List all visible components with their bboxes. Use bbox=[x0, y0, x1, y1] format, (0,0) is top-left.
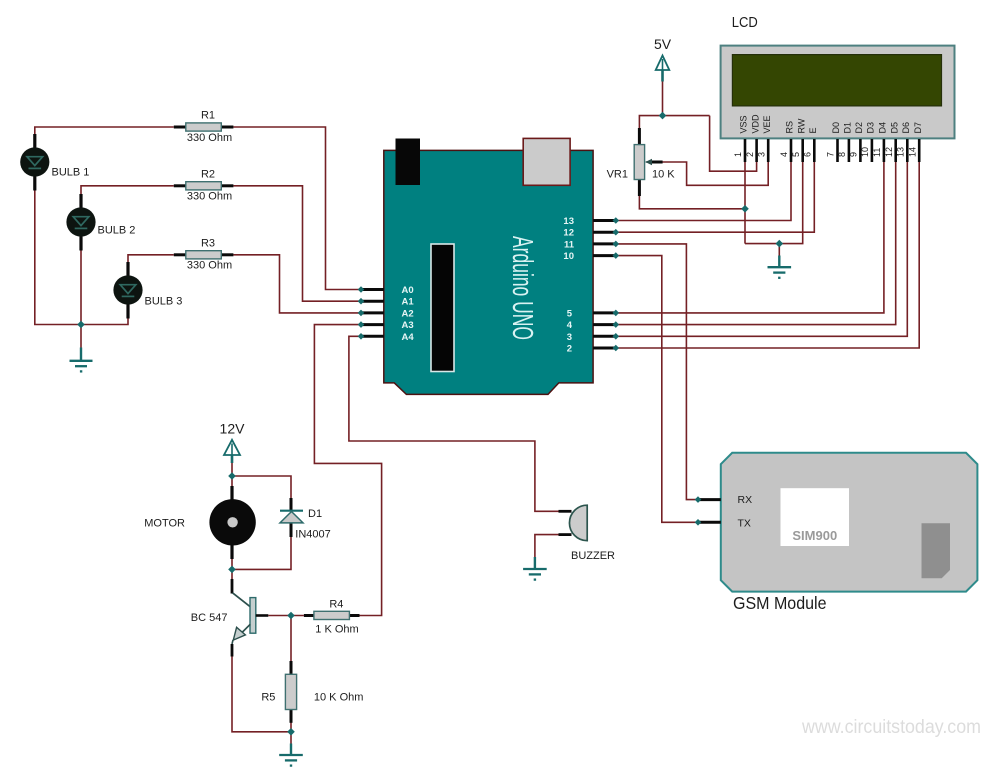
resistor R4 bbox=[304, 599, 360, 636]
pin 4 stub bbox=[593, 323, 614, 326]
wire ground stub below LCD rail bbox=[778, 244, 780, 256]
wire bulb1 top to R1 left bbox=[35, 127, 174, 137]
resistor R5 bbox=[261, 661, 363, 723]
GSM module body bbox=[721, 453, 978, 592]
LCD pin 5 bbox=[801, 139, 804, 162]
wire R5 top bbox=[290, 616, 292, 663]
node junction emitter-R5 ground bbox=[287, 728, 295, 736]
svg-text:VSS: VSS bbox=[739, 115, 749, 133]
svg-text:3: 3 bbox=[756, 152, 766, 157]
resistor R2 bbox=[174, 168, 234, 202]
LCD module body bbox=[721, 46, 955, 139]
svg-text:14: 14 bbox=[907, 147, 917, 157]
wire R2 right to arduino A1 bbox=[233, 186, 361, 301]
node junction 5V rail bbox=[659, 112, 667, 120]
svg-text:330 Ohm: 330 Ohm bbox=[187, 132, 232, 144]
pin A3 stub bbox=[361, 323, 384, 326]
svg-text:VR1: VR1 bbox=[607, 169, 628, 181]
svg-text:1: 1 bbox=[733, 152, 743, 157]
svg-text:BUZZER: BUZZER bbox=[571, 550, 615, 562]
svg-text:D1: D1 bbox=[843, 122, 853, 134]
arduino power jack bbox=[396, 139, 421, 186]
svg-text:BULB 3: BULB 3 bbox=[145, 296, 183, 308]
svg-text:5: 5 bbox=[567, 308, 573, 319]
LCD pin 10 bbox=[871, 139, 874, 162]
wire arduino pin3 to LCD D6 bbox=[616, 161, 908, 336]
pin A2 stub bbox=[361, 311, 384, 314]
node pin 10 bbox=[613, 252, 620, 259]
ground (bulbs rail) bbox=[70, 348, 93, 372]
wire bulb2 bottom to cathode rail bbox=[80, 248, 82, 325]
pin A1 stub bbox=[361, 300, 384, 303]
svg-text:LCD: LCD bbox=[732, 14, 758, 31]
node A4 bbox=[358, 333, 365, 340]
wire arduino pin13 to LCD RS bbox=[616, 161, 791, 221]
wire A3 to resistor R4 bbox=[314, 325, 381, 616]
wire cathode rail junction to ground bbox=[80, 325, 82, 349]
svg-text:D2: D2 bbox=[854, 122, 864, 134]
svg-text:11: 11 bbox=[564, 239, 575, 250]
node junction bulbs-ground bbox=[77, 321, 85, 329]
GSM SIM card bbox=[922, 523, 951, 578]
LCD pin 14 bbox=[918, 139, 921, 162]
node pin 12 bbox=[613, 229, 620, 236]
svg-text:D1: D1 bbox=[308, 508, 322, 520]
bulb BULB 1 bbox=[20, 134, 89, 191]
node junction base R4 R5 bbox=[287, 612, 295, 620]
wire 12V to motor top bbox=[231, 462, 233, 487]
LCD pin 2 bbox=[755, 139, 758, 162]
GSM SIM900 white box bbox=[781, 488, 850, 546]
svg-text:10 K Ohm: 10 K Ohm bbox=[314, 692, 364, 704]
arduino USB connector bbox=[523, 138, 570, 185]
pin 2 stub bbox=[593, 347, 614, 350]
LCD pin 8 bbox=[848, 139, 851, 162]
pin RX stub bbox=[699, 498, 721, 501]
svg-text:E: E bbox=[808, 127, 818, 133]
svg-text:Arduino UNO: Arduino UNO bbox=[506, 236, 538, 340]
wire LCD VEE to VR1 wiper bbox=[662, 161, 768, 185]
svg-text:D5: D5 bbox=[889, 122, 899, 134]
LCD pin 6 bbox=[813, 139, 816, 162]
pin A0 stub bbox=[361, 288, 384, 291]
svg-text:R2: R2 bbox=[201, 168, 215, 180]
wire buzzer bottom to ground bbox=[535, 535, 559, 558]
svg-text:BC 547: BC 547 bbox=[191, 612, 228, 624]
svg-text:VDD: VDD bbox=[750, 114, 760, 134]
svg-text:GSM Module: GSM Module bbox=[733, 593, 827, 613]
ground (transistor emitter) bbox=[279, 744, 303, 766]
node pin 2 bbox=[613, 345, 620, 352]
pin A4 stub bbox=[361, 335, 384, 338]
wire arduino pin11 to GSM RX bbox=[616, 244, 698, 500]
svg-text:R1: R1 bbox=[201, 110, 215, 122]
svg-text:R3: R3 bbox=[201, 237, 215, 249]
node A1 bbox=[358, 298, 365, 305]
node TX bbox=[695, 519, 702, 526]
motor M1 bbox=[144, 486, 256, 559]
resistor R1 bbox=[174, 110, 234, 144]
svg-text:RS: RS bbox=[785, 121, 795, 134]
wire LCD VSS down bbox=[744, 161, 746, 244]
node RX bbox=[695, 496, 702, 503]
ground (LCD rail) bbox=[768, 256, 792, 278]
pin 12 stub bbox=[593, 231, 614, 234]
pin 10 stub bbox=[593, 254, 614, 257]
wire 5V rail to VR1 top bbox=[639, 116, 709, 129]
node pin 13 bbox=[613, 217, 620, 224]
wire arduino pin12 to LCD E bbox=[616, 161, 815, 232]
svg-text:5V: 5V bbox=[654, 36, 672, 52]
svg-text:330 Ohm: 330 Ohm bbox=[187, 191, 232, 203]
svg-text:D6: D6 bbox=[901, 122, 911, 134]
pin 13 stub bbox=[593, 219, 614, 222]
wire arduino pin4 to LCD D5 bbox=[616, 161, 896, 325]
svg-text:10 K: 10 K bbox=[652, 169, 675, 181]
svg-text:A3: A3 bbox=[402, 320, 414, 331]
svg-text:R5: R5 bbox=[261, 692, 275, 704]
svg-text:A0: A0 bbox=[402, 285, 414, 296]
node junction ground rail bbox=[776, 240, 784, 248]
svg-text:1 K Ohm: 1 K Ohm bbox=[315, 623, 358, 635]
node junction VR1-VSS rail bbox=[741, 205, 749, 213]
pin 11 stub bbox=[593, 242, 614, 245]
svg-text:13: 13 bbox=[563, 216, 574, 227]
svg-text:BULB 2: BULB 2 bbox=[98, 225, 136, 237]
wire LCD VDD to 5V rail bbox=[710, 116, 757, 172]
svg-text:RW: RW bbox=[796, 118, 806, 133]
wire bulb1 bottom along cathode rail to bulb3 bottom bbox=[35, 176, 128, 325]
svg-text:SIM900: SIM900 bbox=[792, 528, 837, 543]
node A0 bbox=[358, 286, 365, 293]
node pin 11 bbox=[613, 241, 620, 248]
svg-text:D7: D7 bbox=[913, 122, 923, 134]
bulb BULB 2 bbox=[66, 194, 135, 251]
transistor Q1 BC547 bbox=[191, 579, 269, 657]
wire 12V junction to diode D1 top bbox=[232, 476, 291, 499]
svg-text:MOTOR: MOTOR bbox=[144, 518, 185, 530]
wire VR1 bottom to VSS ground rail bbox=[639, 195, 745, 209]
ground (buzzer) bbox=[523, 557, 547, 580]
svg-text:www.circuitstoday.com: www.circuitstoday.com bbox=[801, 716, 981, 738]
LCD pin 1 bbox=[744, 139, 747, 162]
LCD pin 12 bbox=[894, 139, 897, 162]
svg-text:5: 5 bbox=[791, 152, 801, 157]
svg-text:2: 2 bbox=[567, 344, 572, 355]
pin 3 stub bbox=[593, 335, 614, 338]
power 12V symbol bbox=[220, 421, 246, 464]
wire R5 bottom to ground junction bbox=[290, 722, 292, 744]
svg-text:D0: D0 bbox=[831, 122, 841, 134]
pin TX stub bbox=[699, 521, 721, 524]
svg-text:A1: A1 bbox=[402, 297, 415, 308]
wire arduino pin2 to LCD D7 bbox=[616, 161, 919, 348]
arduino U1 board bbox=[384, 138, 593, 394]
svg-text:4: 4 bbox=[779, 152, 789, 157]
svg-text:RX: RX bbox=[738, 494, 753, 506]
resistor R3 bbox=[174, 237, 234, 271]
wire transistor base to R4 and R5 bbox=[268, 615, 304, 617]
LCD screen bbox=[732, 55, 941, 106]
svg-text:12: 12 bbox=[884, 147, 894, 157]
wire arduino pin5 to LCD D4 bbox=[616, 161, 884, 313]
wire R3 right to arduino A2 bbox=[233, 255, 361, 313]
svg-text:3: 3 bbox=[567, 332, 572, 343]
svg-text:12: 12 bbox=[563, 228, 574, 239]
node pin 4 bbox=[613, 321, 620, 328]
wire motor bottom to collector junction bbox=[231, 545, 233, 581]
svg-text:11: 11 bbox=[872, 148, 882, 157]
svg-text:13: 13 bbox=[896, 147, 906, 157]
svg-text:7: 7 bbox=[826, 152, 836, 157]
LCD pin 3 bbox=[767, 139, 770, 162]
svg-text:A2: A2 bbox=[402, 308, 414, 319]
svg-text:BULB 1: BULB 1 bbox=[52, 167, 90, 179]
node pin 5 bbox=[613, 310, 620, 317]
LCD pin 13 bbox=[906, 139, 909, 162]
wire 5V symbol to rail junction bbox=[662, 81, 664, 116]
LCD pin 9 bbox=[859, 139, 862, 162]
wire arduino pin10 to GSM TX bbox=[616, 256, 698, 523]
node pin 3 bbox=[613, 333, 620, 340]
svg-text:IN4007: IN4007 bbox=[295, 529, 330, 541]
svg-text:4: 4 bbox=[567, 320, 573, 331]
node A3 bbox=[358, 321, 365, 328]
svg-text:TX: TX bbox=[738, 517, 751, 529]
svg-text:D3: D3 bbox=[866, 122, 876, 134]
LCD pin 11 bbox=[883, 139, 886, 162]
potentiometer VR1 bbox=[607, 128, 676, 196]
svg-text:330 Ohm: 330 Ohm bbox=[187, 260, 232, 272]
svg-text:VEE: VEE bbox=[762, 115, 772, 133]
svg-text:D4: D4 bbox=[878, 122, 888, 134]
wire bulb3 top to R3 left bbox=[128, 255, 174, 264]
bulb BULB 3 bbox=[113, 262, 182, 319]
pin 5 stub bbox=[593, 311, 614, 314]
svg-text:8: 8 bbox=[837, 152, 847, 157]
diode D1 bbox=[280, 498, 331, 541]
svg-text:9: 9 bbox=[849, 152, 859, 157]
wire LCD RW to ground rail bbox=[745, 161, 803, 244]
LCD pin 4 bbox=[790, 139, 793, 162]
node junction motor-D1 bottom bbox=[228, 566, 236, 574]
arduino header bar bbox=[431, 244, 454, 372]
LCD pin 7 bbox=[836, 139, 839, 162]
wire bulb2 top to R2 left bbox=[81, 186, 174, 196]
buzzer BZ1 bbox=[559, 505, 616, 562]
svg-text:10: 10 bbox=[563, 251, 574, 262]
svg-text:12V: 12V bbox=[220, 421, 246, 437]
node A2 bbox=[358, 310, 365, 317]
power 5V symbol bbox=[654, 36, 672, 82]
svg-text:A4: A4 bbox=[402, 332, 415, 343]
svg-text:R4: R4 bbox=[329, 599, 343, 611]
wire transistor emitter to ground rail bbox=[232, 655, 291, 732]
wire diode D1 bottom to collector junction bbox=[232, 537, 291, 570]
wire R1 right to arduino A0 bbox=[233, 127, 361, 290]
svg-text:10: 10 bbox=[860, 147, 870, 157]
svg-text:2: 2 bbox=[745, 152, 755, 157]
svg-text:6: 6 bbox=[803, 152, 813, 157]
node junction 12V-motor bbox=[228, 472, 236, 480]
wire A4 to buzzer bbox=[349, 336, 559, 511]
